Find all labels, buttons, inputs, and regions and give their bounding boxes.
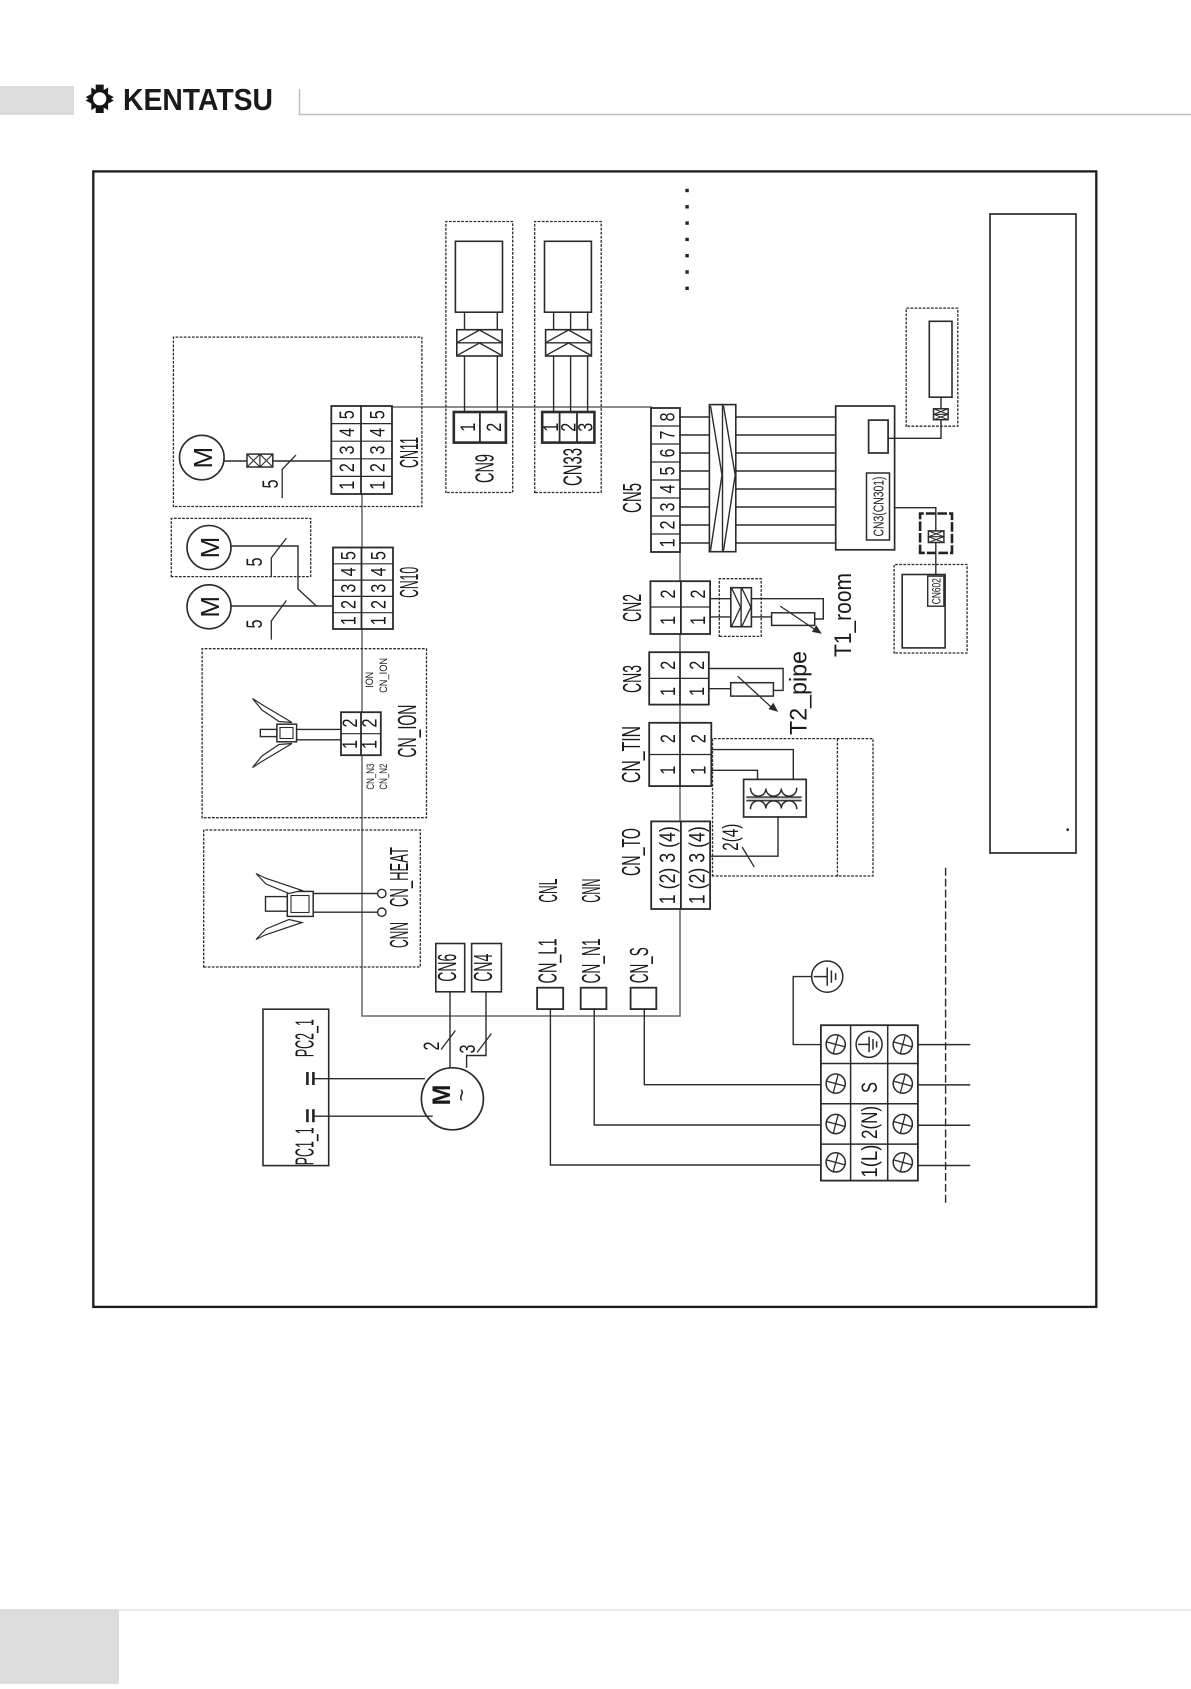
connector CN10 (5-pin, two halves): [333, 548, 393, 630]
wired controller board: [902, 575, 945, 648]
svg-text:T1_room: T1_room: [830, 573, 857, 657]
ferrite crossing symbol CN9: [457, 330, 502, 356]
optional display unit body: [929, 321, 952, 397]
wire-count marker 2 (CN6): [419, 1031, 455, 1051]
svg-text:5: 5: [367, 410, 390, 419]
wire CN6 to fan motor: [449, 992, 451, 1067]
svg-text:CN602: CN602: [929, 578, 943, 604]
svg-text:CN4: CN4: [468, 954, 498, 982]
wire PC2_1 to fan motor: [315, 1078, 424, 1080]
svg-text:1: 1: [359, 740, 382, 749]
dotted enclosure (louver motor CN10): [171, 518, 310, 576]
connector label box CN4: [468, 944, 501, 992]
solder point: [1066, 828, 1069, 831]
svg-text:CNL: CNL: [533, 879, 563, 903]
wire-count marker 5 (motor 1): [242, 539, 286, 576]
dashed enclosure around inline connector X2: [920, 514, 952, 553]
svg-text:2: 2: [657, 661, 680, 670]
wire CN2 pin1 stub: [710, 616, 731, 618]
svg-text:5: 5: [657, 467, 680, 476]
terminal screw top 1: [824, 1151, 848, 1175]
svg-text:PC2_1: PC2_1: [290, 1019, 320, 1057]
svg-text:~: ~: [449, 1089, 474, 1102]
svg-text:CN3: CN3: [617, 665, 647, 693]
svg-text:CN2: CN2: [617, 594, 647, 622]
terminal screw bottom 2: [891, 1112, 915, 1136]
wire bundle CN5 to display board: [736, 417, 836, 543]
svg-text:M: M: [188, 447, 218, 469]
svg-text:1: 1: [657, 616, 680, 625]
fan motor M~: [421, 1068, 483, 1130]
svg-text:KENTATSU: KENTATSU: [123, 82, 273, 117]
svg-text:1: 1: [336, 481, 359, 490]
terminal screw top 2: [824, 1112, 848, 1136]
svg-text:1(L): 1(L): [857, 1145, 882, 1178]
wire heater to CNN terminal 2: [313, 911, 377, 913]
svg-text:CN_TIN: CN_TIN: [616, 726, 646, 783]
wire CN9 pin1: [464, 312, 466, 412]
svg-text:1: 1: [657, 687, 680, 696]
net labels CN_N3 / CN_N2: [365, 764, 390, 790]
svg-text:4: 4: [336, 428, 359, 437]
connector label box CN6: [432, 944, 465, 992]
svg-text:CN_TO: CN_TO: [616, 828, 646, 876]
KENTATSU logo icon: [86, 85, 114, 113]
svg-text:CN10: CN10: [394, 567, 424, 598]
terminal earth mark: [856, 1031, 882, 1057]
connector CN_TO (two halves): [651, 821, 710, 909]
svg-text:7: 7: [657, 431, 680, 440]
dotted enclosure (louver motors CN11): [173, 337, 422, 506]
svg-text:PC1_1: PC1_1: [290, 1127, 320, 1165]
wire terminal 1(L) field side: [918, 1165, 970, 1167]
terminal circle 2: [378, 908, 386, 916]
connector CN33: [540, 412, 598, 443]
protective earth symbol: [812, 961, 843, 992]
wire terminal S field side: [918, 1084, 970, 1086]
svg-text:2: 2: [419, 1042, 444, 1051]
svg-text:2: 2: [336, 463, 359, 472]
svg-text:CN6: CN6: [432, 954, 462, 982]
arrow T1: [781, 607, 817, 631]
wire CN5 pin stubs to twist bundle: [680, 417, 709, 543]
svg-text:4: 4: [368, 567, 391, 576]
wire earth to terminal block: [793, 977, 821, 1045]
wire-count marker 5 (motor 2): [242, 601, 286, 639]
transformer TR1: [744, 779, 807, 817]
thermal protector: [247, 454, 273, 467]
dotted enclosure (T1 filter): [719, 579, 761, 637]
terminal circle 1: [378, 889, 386, 897]
svg-text:3: 3: [367, 446, 390, 455]
svg-text:2: 2: [687, 590, 710, 599]
svg-text:CN_HEAT: CN_HEAT: [384, 847, 414, 907]
connector label CN602: [928, 576, 944, 606]
svg-text:1: 1: [367, 481, 390, 490]
motor M (louver 2, CN10): [187, 585, 231, 629]
svg-text:2: 2: [657, 734, 680, 743]
wire CN2 pin2 stub: [710, 598, 731, 600]
wire CN_S to terminal S: [644, 1009, 821, 1085]
indoor unit main PCB outline: [362, 407, 680, 1016]
wire motor to thermal protector: [224, 460, 247, 462]
dotted enclosure (optional display unit): [906, 308, 958, 426]
wire transformer to CN_TO: [710, 817, 778, 856]
ferrite crossing symbol T1: [731, 588, 752, 627]
dotted enclosure (ionizer CN_ION): [202, 649, 426, 818]
svg-text:2: 2: [483, 423, 506, 432]
capacitor on PC2_1 wire: [307, 1072, 313, 1085]
dotted enclosure (heater CN_HEAT): [204, 830, 421, 967]
connector CN_L1: [537, 988, 563, 1009]
inline connector X2: [928, 531, 944, 543]
thermistor T2_pipe: [731, 683, 774, 696]
svg-text:CN_S: CN_S: [624, 947, 654, 983]
connector label CN3(CN301): [867, 473, 890, 540]
wire CN_N1 to terminal 2(N): [594, 1009, 821, 1125]
wire CN33 pin3: [587, 312, 589, 412]
svg-text:CN_N1: CN_N1: [576, 939, 606, 984]
svg-text:CNN: CNN: [384, 922, 414, 948]
terminal screw top 4: [824, 1033, 848, 1057]
ferrite crossing symbol CN33: [546, 330, 592, 356]
connector block on display board: [869, 420, 889, 453]
svg-text:5: 5: [258, 480, 283, 489]
wire ionizer to CN_ION pin2: [297, 728, 341, 730]
terminal screw bottom 4: [891, 1033, 915, 1057]
svg-text:CN3(CN301): CN3(CN301): [871, 477, 888, 537]
svg-text:2: 2: [368, 600, 391, 609]
wire CN_TIN pin2 to transformer: [711, 750, 793, 780]
svg-text:3: 3: [455, 1045, 480, 1054]
terminal block XT1: [821, 1025, 918, 1180]
wire-count marker 5 (CN11): [258, 456, 296, 498]
svg-text:1 (2) 3 (4): 1 (2) 3 (4): [655, 826, 680, 904]
svg-text:1: 1: [686, 687, 709, 696]
wire inline connector to unit: [940, 397, 942, 409]
svg-text:M: M: [195, 596, 225, 618]
svg-text:M: M: [195, 537, 225, 559]
dotted enclosure (ion generator option CN9): [446, 222, 513, 493]
svg-text:4: 4: [338, 567, 361, 576]
svg-text:ION: ION: [364, 672, 376, 688]
thermistor T1_room: [772, 613, 815, 626]
wire PC1_1 to fan motor: [315, 1115, 432, 1117]
wire terminal 2(N) field side: [918, 1124, 970, 1126]
connector CN_TIN (2-pin, two halves): [649, 723, 711, 786]
terminal screw bottom 1: [891, 1151, 915, 1175]
motor M (louver, CN11): [180, 435, 225, 480]
svg-text:2: 2: [688, 734, 711, 743]
svg-text:CN_L1: CN_L1: [533, 939, 563, 984]
wire CN3 pin2 to T2 thermistor: [709, 669, 783, 691]
svg-text:3: 3: [575, 423, 598, 432]
wire louver motor 1 to CN10: [231, 546, 316, 606]
wire filter to T1 thermistor (pin1): [751, 616, 771, 618]
wire CN_TIN pin1 to transformer: [711, 770, 757, 779]
wire filter to T1 thermistor (pin2): [751, 599, 823, 619]
wire ionizer to CN_ION pin1: [297, 739, 341, 741]
inline connector (2-pin) to optional unit: [934, 409, 949, 420]
heater plug symbol: [256, 874, 313, 940]
svg-text:S: S: [857, 1082, 882, 1093]
svg-text:5: 5: [368, 551, 391, 560]
connector CN_S: [631, 988, 657, 1009]
svg-text:2: 2: [657, 521, 680, 530]
svg-text:3: 3: [657, 503, 680, 512]
svg-text:CN11: CN11: [394, 437, 424, 468]
svg-text:CN_N3: CN_N3: [365, 764, 377, 790]
arrow T2: [738, 677, 773, 709]
display unit (CN33): [545, 241, 592, 312]
dotted continuation marks: [685, 189, 688, 290]
wire CN33 pin2: [570, 312, 572, 412]
wire thermal protector to CN11: [273, 460, 332, 462]
svg-text:CN_N2: CN_N2: [378, 764, 390, 790]
wire CN4 to fan motor: [467, 992, 486, 1067]
wire X2 to CN602 board: [935, 543, 937, 575]
dotted enclosure (display option CN33): [535, 222, 602, 493]
svg-text:CNN: CNN: [576, 879, 606, 903]
svg-text:CN_ION: CN_ION: [378, 658, 390, 693]
connector CN3 (2-pin, two halves): [649, 652, 709, 704]
connector CN11 (5-pin, two halves): [331, 406, 392, 494]
wire CN3 pin1 to T2 thermistor: [709, 688, 731, 690]
wire CN_L1 to terminal 1(L): [550, 1009, 821, 1165]
svg-text:1: 1: [688, 766, 711, 775]
motor M (louver 1, CN10): [187, 526, 231, 570]
dotted enclosure (transformer option): [713, 739, 874, 876]
svg-text:5: 5: [336, 410, 359, 419]
capacitor on PC1_1 wire: [307, 1109, 313, 1122]
terminal screw top 3: [824, 1072, 848, 1096]
wire display board to inline connector: [888, 420, 941, 439]
svg-text:3: 3: [368, 584, 391, 593]
wire CN3(CN301) to inline connector X2: [895, 508, 936, 531]
svg-text:2: 2: [359, 719, 382, 728]
svg-text:2: 2: [686, 661, 709, 670]
svg-text:4: 4: [657, 484, 680, 493]
svg-text:1: 1: [457, 423, 480, 432]
wire louver motor 2 to CN10: [231, 605, 333, 607]
svg-text:1 (2) 3 (4): 1 (2) 3 (4): [685, 826, 710, 904]
dashed boundary line: [945, 865, 947, 1202]
connector CN2 (2-pin, two halves): [650, 581, 710, 634]
svg-text:5: 5: [242, 558, 267, 567]
svg-text:1: 1: [338, 616, 361, 625]
svg-text:5: 5: [338, 551, 361, 560]
terminal screw bottom 3: [891, 1072, 915, 1096]
wire-count marker 3 (CN4): [455, 1034, 491, 1054]
ion generator unit (CN9): [455, 241, 502, 312]
PC board assembly PC1_1/PC2_1: [263, 1009, 329, 1165]
svg-text:CN9: CN9: [470, 454, 500, 483]
svg-text:2: 2: [657, 590, 680, 599]
wire-count marker 2(4): [718, 824, 754, 867]
ionizer electrode symbol: [253, 699, 297, 768]
svg-text:4: 4: [367, 428, 390, 437]
twisted-pair crossing symbol in CN5 bundle: [709, 405, 735, 552]
svg-text:CN33: CN33: [558, 448, 588, 486]
connector CN_ION (2-pin, two halves): [339, 712, 382, 755]
svg-text:CN_ION: CN_ION: [392, 705, 422, 758]
wire CN33 pin1: [553, 312, 555, 412]
svg-text:5: 5: [242, 620, 267, 629]
svg-text:3: 3: [338, 584, 361, 593]
svg-text:6: 6: [657, 449, 680, 458]
display/receiver board: [836, 406, 895, 550]
svg-text:1: 1: [657, 766, 680, 775]
svg-text:2(4): 2(4): [718, 824, 743, 851]
svg-text:2: 2: [367, 463, 390, 472]
svg-text:1: 1: [368, 616, 391, 625]
svg-text:1: 1: [657, 539, 680, 548]
connector CN9: [454, 412, 506, 443]
wire heater to CNN terminal 1: [313, 893, 377, 895]
svg-text:3: 3: [336, 446, 359, 455]
connector CN_N1: [581, 988, 607, 1009]
wire CN9 pin2: [496, 312, 498, 412]
net labels ION / CN_ION: [364, 658, 390, 693]
svg-text:8: 8: [657, 413, 680, 422]
svg-text:T2_pipe: T2_pipe: [786, 651, 813, 735]
svg-text:2(N): 2(N): [857, 1106, 882, 1139]
svg-text:1: 1: [687, 616, 710, 625]
svg-text:CN5: CN5: [617, 483, 647, 513]
connector CN5 (8-pin): [651, 408, 680, 552]
svg-text:2: 2: [338, 600, 361, 609]
dotted enclosure (wired controller): [894, 565, 967, 654]
wire terminal earth field side: [918, 1044, 970, 1046]
option strip board: [990, 214, 1076, 853]
